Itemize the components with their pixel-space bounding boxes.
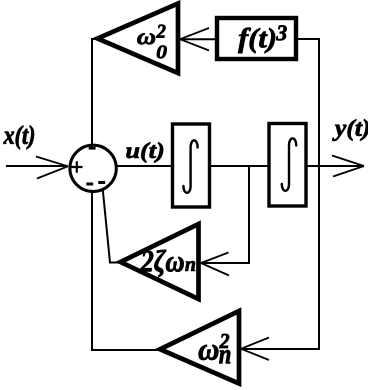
wire: right feedback vertical from f(t)^3 down to bottom [318, 39, 320, 349]
output arrowhead [332, 156, 364, 177]
summer plus sign [71, 161, 83, 173]
integrator block 1 [173, 124, 210, 207]
label y(t) [332, 119, 368, 141]
label omega-n^2 [199, 345, 219, 360]
label x(t) [3, 126, 34, 150]
input arrowhead [36, 157, 68, 179]
integral sign 1 [183, 140, 197, 192]
gain triangle 2-zeta-omega-n [121, 224, 199, 299]
wire: input line x(t) to summer [6, 165, 68, 167]
wire: f(t)^3 output to omega0 triangle [180, 38, 217, 40]
arrowhead into omega-n^2 triangle [241, 338, 269, 361]
gain triangle omega-n^2 [160, 311, 239, 384]
wire: integrator 1 to integrator 2 [210, 165, 268, 167]
wire: output line to y(t) [306, 165, 364, 167]
label omega0^2 [137, 33, 155, 44]
summer bottom-left minus sign [86, 183, 93, 186]
wire: tap between integrators down to 2-zeta-omega-n arrow [201, 166, 249, 263]
wire: omega0 triangle apex down to summer top [92, 39, 99, 146]
label f(t)^3 [238, 28, 275, 53]
summing junction circle [70, 145, 116, 191]
wire: f(t)^3 block right side link [296, 38, 320, 40]
integral sign 2 [282, 138, 296, 190]
summer bottom-right minus sign [98, 181, 105, 184]
wire: 2-zeta-omega-n apex to summer lower right [103, 190, 121, 263]
arrowhead into 2-zeta-omega-n triangle [201, 253, 229, 276]
summer top minus sign [89, 147, 96, 150]
arrowhead into omega0 triangle [180, 28, 209, 51]
integrator block 2 [269, 124, 306, 207]
wire: u(t) summer to integrator 1 [117, 165, 173, 167]
label 2-zeta-omega-n [140, 250, 183, 277]
gain triangle omega0^2 [98, 4, 179, 74]
wire: omega-n^2 apex left and up to summer bottom [92, 191, 160, 351]
label u(t) [126, 142, 163, 162]
wire: bottom feedback into omega-n^2 triangle [241, 348, 320, 350]
block f(t)^3 [217, 18, 296, 59]
